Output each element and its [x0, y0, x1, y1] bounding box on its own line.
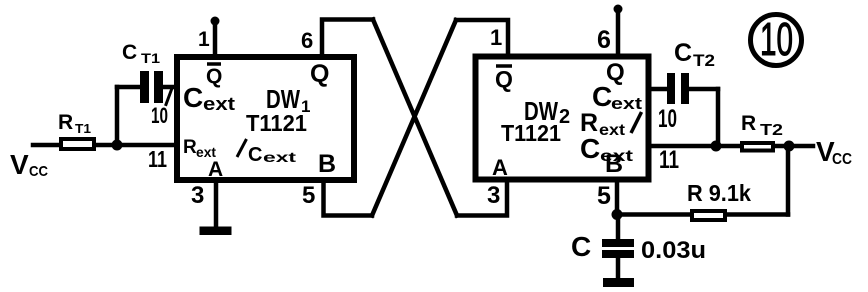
- svg-text:10: 10: [760, 13, 793, 65]
- svg-text:Q: Q: [206, 65, 222, 88]
- svg-text:B: B: [318, 150, 336, 178]
- svg-text:A: A: [492, 155, 508, 180]
- svg-text:T1: T1: [141, 50, 160, 66]
- svg-text:T1: T1: [75, 121, 91, 136]
- svg-text:C: C: [122, 41, 137, 64]
- svg-text:C: C: [183, 82, 203, 113]
- svg-text:3: 3: [191, 182, 204, 209]
- svg-text:11: 11: [148, 146, 167, 172]
- svg-text:C: C: [248, 144, 262, 166]
- svg-text:C: C: [571, 231, 591, 262]
- svg-text:A: A: [208, 158, 223, 181]
- svg-text:ext: ext: [611, 94, 642, 113]
- svg-text:T2: T2: [693, 51, 715, 70]
- svg-text:T2: T2: [760, 122, 783, 139]
- svg-text:ext: ext: [263, 149, 297, 165]
- svg-text:ext: ext: [203, 94, 235, 114]
- svg-text:R: R: [183, 137, 197, 158]
- svg-text:6: 6: [301, 28, 313, 53]
- svg-text:C: C: [580, 133, 600, 164]
- svg-text:10: 10: [151, 103, 168, 128]
- svg-text:1: 1: [490, 25, 502, 50]
- svg-text:Q: Q: [495, 66, 513, 92]
- svg-text:C: C: [592, 81, 612, 112]
- svg-text:5: 5: [302, 182, 315, 209]
- svg-text:R 9.1k: R 9.1k: [687, 180, 751, 206]
- svg-text:T1121: T1121: [246, 110, 307, 136]
- svg-text:R: R: [58, 111, 73, 134]
- svg-text:T1121: T1121: [501, 120, 561, 146]
- svg-text:C: C: [674, 39, 692, 67]
- svg-text:R: R: [741, 112, 756, 135]
- svg-text:10: 10: [658, 105, 677, 133]
- svg-text:5: 5: [597, 182, 611, 210]
- svg-text:CC: CC: [29, 163, 48, 180]
- svg-text:1: 1: [198, 28, 210, 51]
- svg-text:11: 11: [659, 146, 679, 174]
- svg-text:6: 6: [597, 26, 611, 54]
- svg-text:B: B: [605, 150, 623, 178]
- svg-text:3: 3: [487, 182, 500, 209]
- svg-text:0.03u: 0.03u: [641, 237, 706, 264]
- svg-text:V: V: [10, 149, 29, 180]
- svg-text:ext: ext: [599, 122, 626, 139]
- svg-text:CC: CC: [832, 151, 852, 168]
- svg-text:Q: Q: [310, 60, 329, 88]
